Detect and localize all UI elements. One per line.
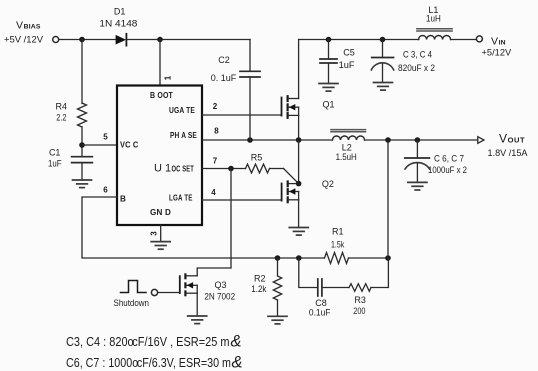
svg-text:BIAS: BIAS (24, 24, 41, 31)
wire LGATE pin 4 to Q2 gate (202, 199, 282, 201)
node C2 bottom junction (247, 137, 253, 143)
resistor R1 (325, 253, 349, 264)
label U1 OCSET (154, 163, 194, 175)
svg-text:2: 2 (213, 102, 218, 111)
svg-text:R5: R5 (251, 153, 263, 163)
node feedback junction (385, 137, 391, 143)
wire VBIAS to D1 anode (59, 39, 116, 41)
svg-text:UGA TE: UGA TE (169, 106, 195, 115)
capacitor C2 (240, 40, 260, 141)
resistor R3 (349, 284, 371, 292)
svg-text:Q3: Q3 (214, 280, 226, 290)
label Q3 2N7002 (204, 280, 235, 302)
capacitor C1 (72, 157, 93, 163)
ground under IC (151, 242, 170, 250)
wire L2 to VOUT arrow (365, 139, 478, 141)
svg-text:C6, C7 : 1000ocF/6.3V, ESR=30: C6, C7 : 1000ocF/6.3V, ESR=30 m (66, 355, 231, 370)
node R1 right junction (385, 255, 391, 261)
node C6 C7 junction (415, 137, 421, 143)
label L1 1uH (426, 5, 441, 23)
svg-text:U 1: U 1 (154, 163, 171, 175)
svg-text:1uF: 1uF (339, 60, 356, 70)
wire shutdown to Q3 gate (158, 292, 180, 294)
svg-text:GN D: GN D (150, 208, 171, 217)
wire input rail to L1 (299, 39, 419, 41)
label R3 200 (353, 295, 366, 316)
label R4 2.2 (56, 102, 68, 123)
node phase Q1 Q2 junction (296, 137, 302, 143)
wire R5 to diagonal (270, 168, 284, 170)
label VIN (482, 35, 512, 57)
svg-text:VC C: VC C (120, 141, 138, 150)
wire R3 up to feedback node (371, 258, 388, 288)
svg-text:+5/12V: +5/12V (482, 48, 512, 58)
svg-text:OC SET: OC SET (172, 165, 195, 174)
svg-text:C2: C2 (218, 55, 230, 65)
node BOOT junction (157, 37, 163, 43)
wire C8 branch down (299, 258, 318, 288)
node OCSET junction (228, 166, 234, 172)
svg-text:L2: L2 (342, 142, 352, 152)
resistor R5 (246, 164, 270, 173)
node C8 branch junction (296, 255, 302, 261)
label VBIAS (4, 20, 43, 45)
node R2 junction (275, 255, 281, 261)
svg-text:OUT: OUT (508, 135, 526, 144)
wire FB pin 6 (82, 197, 325, 258)
wire phase node down to Q2 drain (298, 140, 300, 184)
label C8 0.1uF (309, 298, 331, 317)
svg-text:6: 6 (103, 186, 108, 195)
label VOUT (488, 131, 528, 158)
node C5 junction (326, 37, 332, 43)
ground under C5 (319, 84, 338, 92)
wire Q2 source to ground (298, 200, 300, 228)
capacitor C6 C7 electrolytic (405, 140, 430, 182)
op-amp U1 controller IC box (117, 86, 202, 226)
svg-text:1: 1 (164, 75, 173, 80)
svg-text:LGA TE: LGA TE (169, 194, 193, 203)
svg-text:0.1uF: 0.1uF (309, 307, 331, 317)
svg-text:2N 7002: 2N 7002 (204, 292, 235, 302)
terminal shutdown circle (151, 289, 157, 295)
resistor R2 (273, 258, 281, 316)
wire down to R4 (81, 40, 83, 104)
wire L1 to VIN (451, 39, 477, 41)
transistor Q1 (282, 96, 299, 118)
node C3 C4 junction (380, 37, 386, 43)
wire PHASE pin 8 to L2 (202, 139, 333, 141)
wire OCSET to Q3 drain (197, 169, 231, 276)
label R2 1.2k (251, 274, 267, 295)
svg-text:8: 8 (214, 127, 219, 136)
svg-text:V: V (499, 131, 507, 145)
capacitor C3 C4 electrolytic (371, 40, 393, 83)
svg-text:&: & (232, 354, 243, 371)
svg-text:PH A SE: PH A SE (170, 131, 197, 140)
label C3 C4 (398, 50, 435, 74)
label R1 1.5k (331, 226, 345, 249)
svg-text:R1: R1 (332, 226, 344, 236)
ground under C3 C4 (374, 83, 393, 91)
ground under R2 (268, 316, 287, 324)
wire C8 to R3 (322, 287, 349, 289)
svg-text:R3: R3 (354, 295, 366, 305)
svg-text:1N 4148: 1N 4148 (99, 18, 137, 28)
ground under C6 C7 (408, 182, 427, 190)
svg-text:R2: R2 (254, 274, 266, 284)
wire VCC pin 5 (82, 144, 117, 146)
wire Q1 drain up to input rail (298, 40, 300, 99)
svg-text:1.8V /15A: 1.8V /15A (488, 148, 528, 158)
ground under C1 (73, 180, 92, 188)
label L2 1.5uH (336, 142, 357, 162)
wire Q3 source to ground (196, 293, 198, 316)
svg-text:1uH: 1uH (426, 13, 441, 23)
label C6 C7 (428, 154, 467, 175)
label C5 1uF (339, 47, 356, 70)
svg-text:B: B (120, 195, 126, 204)
terminal VOUT arrow (478, 137, 484, 144)
svg-text:C5: C5 (343, 47, 355, 57)
terminal VIN (476, 36, 482, 42)
diode D1 (116, 34, 127, 46)
svg-text:0. 1uF: 0. 1uF (211, 73, 237, 83)
svg-text:1000uF x 2: 1000uF x 2 (428, 165, 467, 175)
svg-text:&: & (231, 333, 242, 351)
transistor Q2 (282, 182, 299, 203)
wire feedback vertical (387, 140, 389, 258)
svg-text:3: 3 (150, 231, 159, 236)
svg-text:4: 4 (211, 188, 216, 197)
svg-text:B OOT: B OOT (150, 91, 173, 100)
svg-text:5: 5 (103, 133, 108, 142)
terminal VBIAS (53, 37, 59, 43)
svg-text:V: V (16, 20, 23, 32)
svg-text:C3, C4 : 820ocF/16V , ESR=25 m: C3, C4 : 820ocF/16V , ESR=25 m (66, 334, 230, 349)
capacitor C5 (320, 40, 337, 84)
wire GND pin to ground (160, 225, 162, 242)
node junction at R4 top (79, 37, 85, 43)
wire C1 to ground (81, 163, 83, 180)
inductor L2 (331, 130, 366, 140)
svg-text:IN: IN (499, 39, 506, 46)
svg-text:D1: D1 (114, 6, 126, 16)
svg-text:V: V (491, 35, 498, 47)
svg-text:1uF: 1uF (48, 159, 62, 169)
wire diagonal to Q2 drain (284, 169, 299, 184)
resistor R4 (78, 103, 87, 127)
wire R4 to C1 (81, 127, 83, 157)
shutdown pulse symbol (121, 281, 147, 293)
wire Q1 source down to phase node (298, 115, 300, 140)
svg-text:2.2: 2.2 (56, 112, 66, 122)
svg-text:820uF x 2: 820uF x 2 (398, 63, 435, 73)
svg-text:200: 200 (353, 306, 365, 316)
ground under Q2 (289, 228, 308, 236)
svg-text:+5V /12V: +5V /12V (4, 35, 43, 45)
svg-text:Q2: Q2 (322, 179, 334, 189)
svg-text:1.5uH: 1.5uH (336, 152, 357, 162)
svg-text:C 6, C 7: C 6, C 7 (434, 154, 464, 164)
node Q2 drain junction (296, 181, 302, 187)
node VCC junction (79, 142, 85, 148)
label C2 (211, 55, 237, 83)
wire D1 cathode to C2 corner (127, 39, 250, 41)
svg-text:C1: C1 (49, 147, 61, 157)
caption line 2 (66, 354, 243, 371)
label D1 1N4148 (99, 6, 137, 28)
svg-text:7: 7 (213, 157, 218, 166)
svg-text:C 3, C 4: C 3, C 4 (403, 50, 432, 60)
wire BOOT junction down to pin 1 (159, 40, 161, 86)
capacitor C8 (318, 279, 322, 296)
label C1 1uF (48, 147, 62, 168)
wire UGATE pin 2 to Q1 gate (202, 114, 282, 116)
caption line 1 (66, 333, 242, 351)
svg-text:Q1: Q1 (323, 100, 335, 110)
svg-text:Shutdown: Shutdown (114, 298, 150, 308)
inductor L1 (417, 29, 452, 40)
svg-text:1.2k: 1.2k (251, 284, 267, 294)
svg-text:R4: R4 (56, 102, 68, 112)
ground under Q3 (188, 316, 207, 324)
transistor Q3 (180, 274, 197, 295)
wire R1 to feedback node (349, 257, 389, 259)
svg-text:1.5k: 1.5k (331, 240, 345, 250)
wire OCSET pin 7 (202, 168, 246, 170)
